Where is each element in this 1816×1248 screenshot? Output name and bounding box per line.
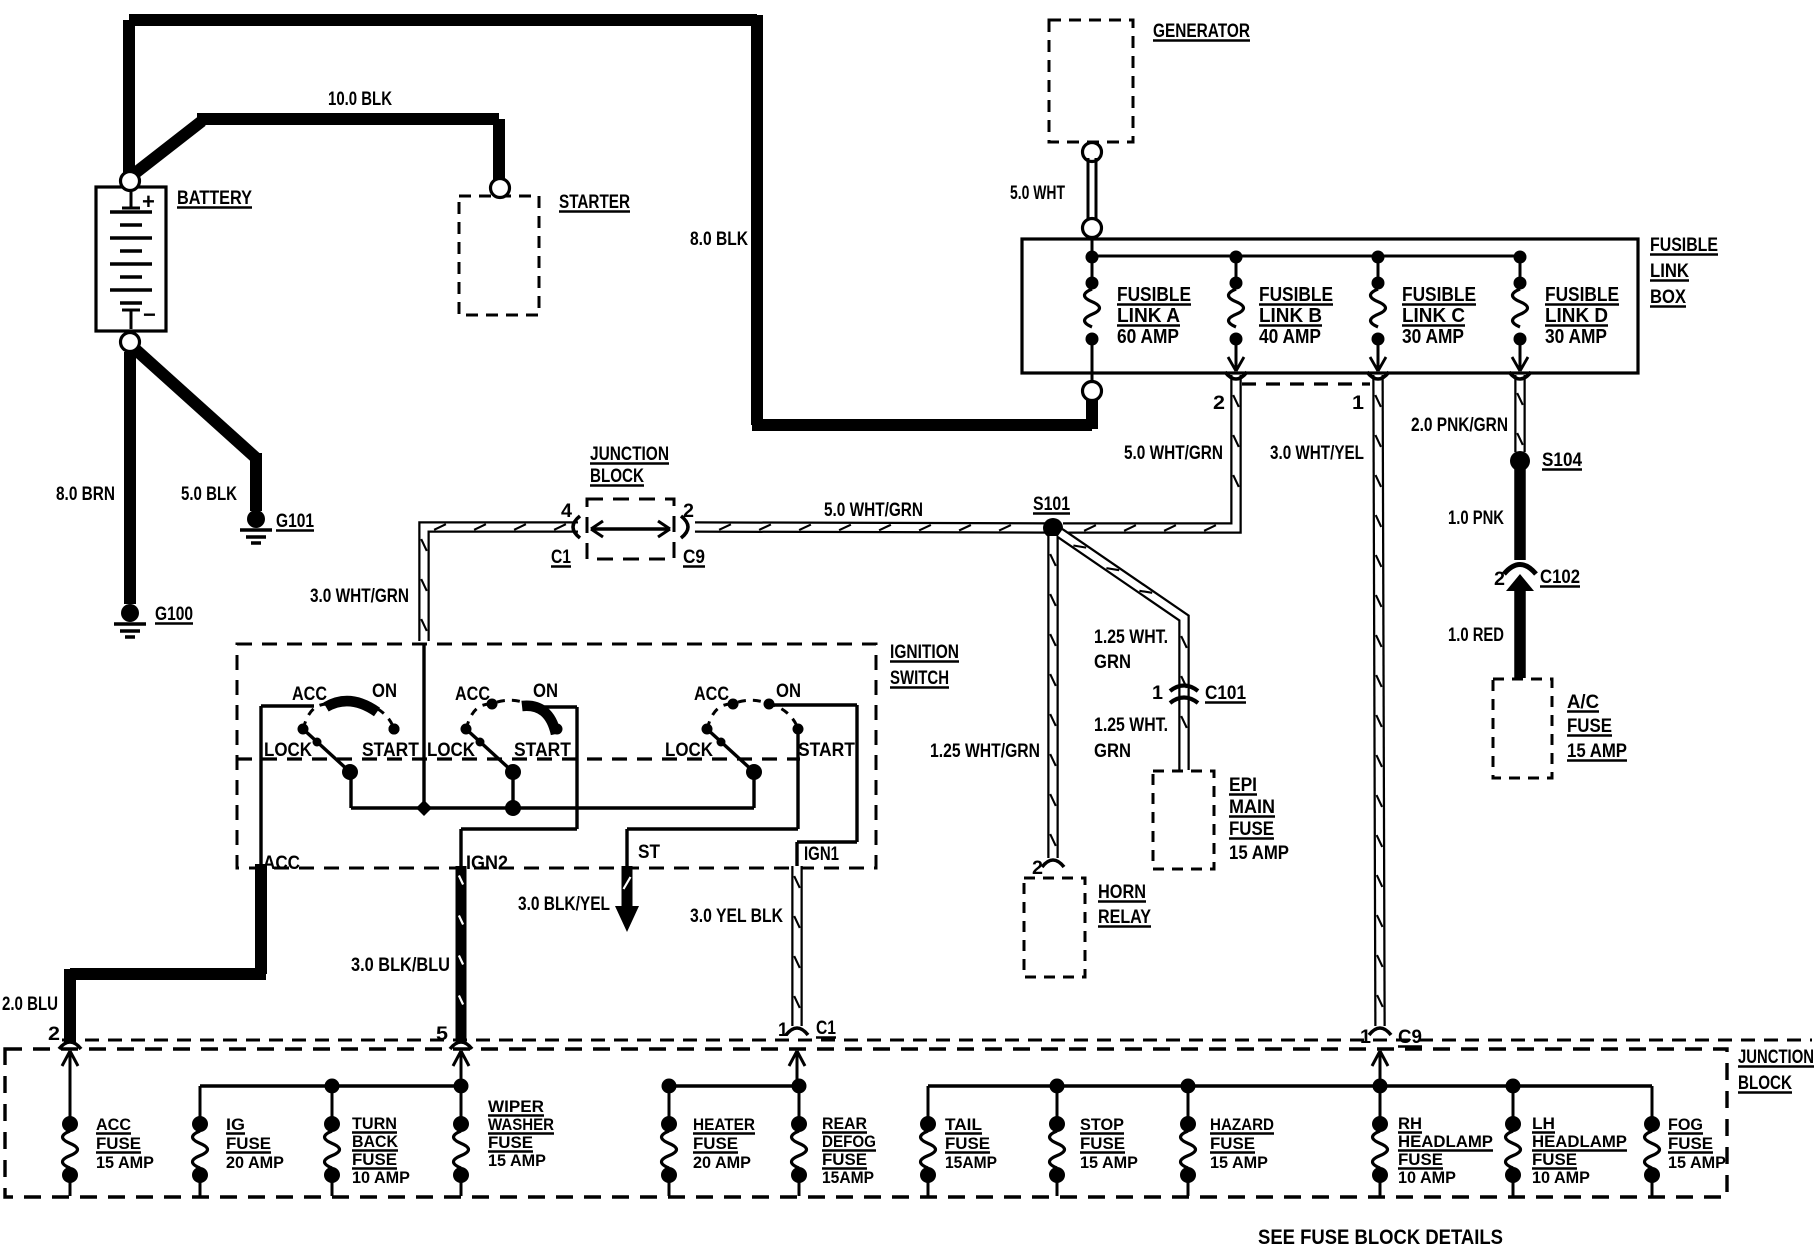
svg-text:HEADLAMP: HEADLAMP — [1398, 1132, 1493, 1151]
svg-text:RH: RH — [1398, 1114, 1422, 1133]
wafer2 position labels — [427, 681, 571, 761]
label 3.0 WHT/GRN — [310, 586, 409, 607]
wire ACC feed bus — [351, 772, 754, 808]
svg-text:GENERATOR: GENERATOR — [1153, 21, 1250, 42]
svg-text:2: 2 — [48, 1024, 60, 1045]
svg-text:2.0 PNK/GRN: 2.0 PNK/GRN — [1411, 415, 1508, 436]
fusible link bus wire — [1092, 237, 1520, 256]
label IGN1 output — [804, 844, 839, 865]
label 1 C9 — [1360, 1027, 1422, 1048]
fusible link B 40A element — [1228, 257, 1244, 371]
label BATTERY — [177, 188, 252, 209]
connector C101 — [1152, 683, 1246, 704]
wire 5.0 WHT generator to fusible link box — [1088, 158, 1096, 222]
label 5.0 WHT/GRN (run) — [824, 500, 923, 521]
wire 8.0 BRN battery to G100 — [124, 352, 136, 604]
svg-text:G101: G101 — [276, 511, 314, 532]
svg-text:FUSE: FUSE — [1080, 1134, 1125, 1153]
label 3.0 WHT/YEL — [1270, 443, 1364, 464]
svg-text:GRN: GRN — [1094, 741, 1131, 762]
svg-text:1.0 RED: 1.0 RED — [1448, 625, 1504, 646]
generator G box — [1049, 20, 1133, 142]
svg-text:3.0 WHT/GRN: 3.0 WHT/GRN — [310, 586, 409, 607]
battery positive cable 10.0 BLK to top bus — [129, 20, 757, 174]
svg-text:FUSE: FUSE — [352, 1150, 397, 1169]
svg-text:LINK B: LINK B — [1259, 305, 1322, 327]
wire wafer1 ACC contact to ACC output — [261, 706, 314, 866]
label 5.0 WHT — [1010, 183, 1065, 204]
wire 5.0 BLK battery to G101 — [135, 349, 256, 511]
label 5.0 WHT/GRN — [1124, 443, 1223, 464]
svg-text:BLOCK: BLOCK — [590, 466, 644, 487]
pin 4 label — [561, 501, 572, 522]
svg-text:IGN1: IGN1 — [804, 844, 839, 865]
label 5.0 BLK — [181, 484, 237, 505]
svg-text:A/C: A/C — [1567, 692, 1599, 713]
svg-text:START: START — [514, 740, 571, 761]
svg-text:LOCK: LOCK — [665, 740, 713, 761]
svg-text:3.0 BLK/BLU: 3.0 BLK/BLU — [351, 955, 450, 976]
svg-text:FUSIBLE: FUSIBLE — [1259, 284, 1333, 306]
wire wafer2 ON contact to IGN2 output — [461, 707, 577, 866]
svg-text:WASHER: WASHER — [488, 1115, 554, 1134]
svg-text:10 AMP: 10 AMP — [1398, 1168, 1456, 1187]
svg-text:FUSE: FUSE — [1532, 1150, 1577, 1169]
label HORN RELAY — [1098, 882, 1151, 928]
label 8.0 BRN — [56, 484, 115, 505]
mechanical link dashed line — [237, 757, 800, 760]
svg-text:DEFOG: DEFOG — [822, 1132, 876, 1151]
ignition switch wafer 2 (IGN2) — [461, 699, 563, 781]
connector face dashed line above junction block — [62, 1039, 1812, 1042]
svg-text:BOX: BOX — [1650, 287, 1686, 308]
svg-text:FUSE: FUSE — [1398, 1150, 1443, 1169]
svg-text:1: 1 — [1352, 393, 1364, 414]
svg-text:10 AMP: 10 AMP — [352, 1168, 410, 1187]
ignition switch box — [237, 644, 876, 868]
pin 5 label — [436, 1024, 448, 1045]
junction block IGN1 entry arrow — [789, 1051, 805, 1086]
svg-text:JUNCTION: JUNCTION — [590, 444, 669, 465]
ignition switch wafer 1 (ACC) — [298, 700, 400, 780]
svg-text:JUNCTION: JUNCTION — [1738, 1047, 1814, 1068]
svg-text:5: 5 — [436, 1024, 448, 1045]
svg-text:FUSE: FUSE — [1229, 819, 1274, 840]
junction block (bottom) box — [5, 1049, 1727, 1197]
junction block (middle) box — [587, 499, 674, 559]
svg-text:ON: ON — [776, 681, 801, 702]
svg-text:STARTER: STARTER — [559, 192, 630, 213]
label 3.0 YEL/BLK — [690, 906, 783, 927]
bus wire HEATER-DEFOG — [662, 1079, 807, 1094]
svg-text:1: 1 — [1152, 683, 1163, 704]
WIPER WASHER fuse 15A — [453, 1086, 469, 1196]
svg-text:1.25 WHT.: 1.25 WHT. — [1094, 627, 1168, 648]
svg-text:15 AMP: 15 AMP — [1210, 1153, 1268, 1172]
svg-text:ST: ST — [638, 842, 660, 863]
label 1.25 WHT/GRN — [930, 741, 1040, 762]
wire 2.0 PNK/GRN link D to S104 — [1509, 372, 1531, 452]
svg-text:5.0 BLK: 5.0 BLK — [181, 484, 237, 505]
horn relay box — [1024, 878, 1085, 977]
svg-text:FUSE: FUSE — [96, 1134, 141, 1153]
svg-text:GRN: GRN — [1094, 652, 1131, 673]
svg-text:MAIN: MAIN — [1229, 797, 1275, 818]
svg-text:TURN: TURN — [352, 1114, 397, 1133]
wire 10.0 BLK battery to starter — [134, 119, 499, 180]
starter terminal — [491, 179, 510, 198]
svg-text:ACC: ACC — [455, 684, 490, 705]
label RH HEADLAMP FUSE 10 AMP — [1398, 1114, 1493, 1187]
svg-text:10 AMP: 10 AMP — [1532, 1168, 1590, 1187]
label JUNCTION BLOCK (middle) — [590, 444, 669, 487]
label 10.0 BLK — [328, 89, 392, 110]
bus junction dot wafer2 — [505, 800, 521, 816]
svg-text:ON: ON — [533, 681, 558, 702]
label IG FUSE 20 AMP — [226, 1115, 284, 1172]
battery negative terminal — [121, 333, 140, 352]
svg-text:10.0 BLK: 10.0 BLK — [328, 89, 392, 110]
svg-text:S104: S104 — [1542, 450, 1582, 471]
svg-text:FUSE: FUSE — [1668, 1134, 1713, 1153]
HEATER fuse 20A — [661, 1086, 677, 1196]
svg-text:LOCK: LOCK — [427, 740, 475, 761]
svg-text:FUSE: FUSE — [1567, 716, 1612, 737]
svg-text:60 AMP: 60 AMP — [1117, 326, 1179, 348]
A/C fuse box — [1493, 679, 1552, 778]
svg-text:IG: IG — [226, 1115, 245, 1134]
svg-text:ON: ON — [372, 681, 397, 702]
REAR DEFOG fuse 15A — [791, 1086, 807, 1196]
svg-text:1: 1 — [778, 1020, 788, 1041]
wire wafer3 START contact to ST output — [627, 729, 798, 866]
connector C9 flare (middle) — [681, 516, 688, 538]
fusible link box input terminal — [1083, 219, 1102, 238]
pin 1 of link C wire — [1352, 393, 1364, 414]
label 2.0 BLU — [2, 994, 58, 1015]
svg-text:IGN2: IGN2 — [466, 853, 508, 874]
connector C1 flare — [573, 516, 580, 538]
svg-text:ACC: ACC — [263, 853, 300, 874]
label LH HEADLAMP FUSE 10 AMP — [1532, 1114, 1627, 1187]
junction block IGN2 entry arrow — [453, 1051, 469, 1086]
bus junction dots — [1086, 251, 1527, 264]
IG fuse 20A — [192, 1086, 208, 1196]
wire wafer3 ON contact to IGN1 output — [769, 705, 857, 866]
junction block C9 entry arrow — [1372, 1051, 1388, 1086]
wafer3 position labels — [665, 681, 855, 761]
label 3.0 BLK/YEL — [518, 894, 610, 915]
svg-text:ACC: ACC — [96, 1115, 131, 1134]
svg-text:8.0 BRN: 8.0 BRN — [56, 484, 115, 505]
splice S101 — [1033, 494, 1070, 538]
wire 3.0 WHT/YEL link C to junction block C9 — [1367, 372, 1389, 1026]
connector C9 flare at junction block — [1369, 1028, 1391, 1035]
FOG fuse 15A — [1644, 1086, 1660, 1196]
svg-text:2.0 BLU: 2.0 BLU — [2, 994, 58, 1015]
label C9 (middle) — [683, 547, 705, 568]
svg-text:IGNITION: IGNITION — [890, 642, 959, 663]
wafer1 position labels — [264, 681, 419, 761]
label 1.25 WHT GRN (below C101) — [1094, 715, 1168, 762]
svg-text:40 AMP: 40 AMP — [1259, 326, 1321, 348]
wire 1.0 RED C102 to AC fuse — [1514, 586, 1526, 678]
label ACC FUSE 15 AMP — [96, 1115, 154, 1172]
svg-text:3.0 YEL BLK: 3.0 YEL BLK — [690, 906, 783, 927]
svg-text:BLOCK: BLOCK — [1738, 1073, 1792, 1094]
label STARTER — [559, 192, 630, 213]
label FOG FUSE 15 AMP — [1668, 1115, 1726, 1172]
label FUSIBLE LINK D 30 AMP — [1545, 284, 1619, 348]
svg-text:START: START — [798, 740, 855, 761]
wire 1.0 PNK S104 to C102 — [1514, 468, 1526, 560]
svg-text:2: 2 — [1213, 393, 1225, 414]
svg-text:C9: C9 — [683, 547, 705, 568]
svg-text:HAZARD: HAZARD — [1210, 1115, 1274, 1134]
svg-text:RELAY: RELAY — [1098, 907, 1151, 928]
splice S104 — [1510, 450, 1582, 471]
svg-text:WIPER: WIPER — [488, 1097, 544, 1116]
label TURN BACK FUSE 10 AMP — [352, 1114, 410, 1187]
svg-text:20 AMP: 20 AMP — [226, 1153, 284, 1172]
label 1.0 RED — [1448, 625, 1504, 646]
svg-text:15 AMP: 15 AMP — [1567, 741, 1627, 762]
wire 3.0 WHT/GRN junction C1 to ignition switch — [421, 524, 578, 641]
svg-text:2: 2 — [1032, 858, 1043, 879]
ground G100 — [114, 604, 193, 637]
svg-text:C101: C101 — [1205, 683, 1246, 704]
label FUSIBLE LINK BOX — [1650, 235, 1718, 308]
svg-text:BACK: BACK — [352, 1132, 399, 1151]
label 1.25 WHT GRN (above C101) — [1094, 627, 1168, 673]
wire 3.0 YEL/BLK IGN1 to junction block — [794, 866, 800, 1026]
svg-text:1: 1 — [1360, 1027, 1371, 1048]
svg-text:C9: C9 — [1398, 1027, 1422, 1048]
svg-text:FOG: FOG — [1668, 1115, 1703, 1134]
svg-text:5.0 WHT: 5.0 WHT — [1010, 183, 1065, 204]
svg-text:15AMP: 15AMP — [822, 1168, 874, 1187]
bus wire IG-TURN-WIPER — [200, 1079, 469, 1094]
ignition switch wafer 3 (IGN1/ST) — [702, 699, 804, 781]
svg-text:1.25 WHT.: 1.25 WHT. — [1094, 715, 1168, 736]
junction block ACC entry arrow — [62, 1051, 78, 1066]
label FUSIBLE LINK A 60 AMP — [1117, 284, 1191, 348]
wire 8.0 BLK top bus to fusible link box — [752, 15, 1092, 429]
svg-text:15 AMP: 15 AMP — [1668, 1153, 1726, 1172]
ACC fuse 15A — [62, 1054, 78, 1196]
battery positive terminal — [121, 172, 140, 191]
IGN1 wire C1 flare — [786, 1028, 808, 1035]
fusible link C 30A element — [1370, 257, 1386, 371]
svg-text:5.0 WHT/GRN: 5.0 WHT/GRN — [824, 500, 923, 521]
ACC wire end flare — [59, 1042, 81, 1049]
svg-text:REAR: REAR — [822, 1114, 867, 1133]
svg-text:LINK A: LINK A — [1117, 305, 1180, 327]
svg-text:FUSIBLE: FUSIBLE — [1117, 284, 1191, 306]
wire 5.0 WHT/GRN C9 to S101 — [695, 524, 1053, 530]
STOP fuse 15A — [1049, 1086, 1065, 1196]
label 3.0 BLK/BLU — [351, 955, 450, 976]
svg-text:LOCK: LOCK — [264, 740, 312, 761]
label 8.0 BLK — [690, 229, 748, 250]
svg-text:FUSE: FUSE — [1210, 1134, 1255, 1153]
svg-text:FUSIBLE: FUSIBLE — [1650, 235, 1718, 256]
svg-text:15 AMP: 15 AMP — [488, 1151, 546, 1170]
svg-text:2: 2 — [683, 501, 694, 522]
label JUNCTION BLOCK (bottom) — [1738, 1047, 1814, 1094]
label ST output — [638, 842, 660, 863]
label IGNITION SWITCH — [890, 642, 959, 689]
label 1.0 PNK — [1448, 508, 1504, 529]
svg-text:START: START — [362, 740, 419, 761]
junction diamond C1 feed — [416, 644, 432, 816]
svg-text:SEE FUSE BLOCK DETAILS: SEE FUSE BLOCK DETAILS — [1258, 1226, 1503, 1248]
wire 2.0 BLU ACC to junction block — [70, 864, 266, 1042]
svg-text:−: − — [143, 302, 156, 327]
label FUSIBLE LINK C 30 AMP — [1402, 284, 1476, 348]
caption SEE FUSE BLOCK DETAILS — [1258, 1226, 1503, 1248]
RH HEADLAMP fuse 10A — [1372, 1086, 1388, 1196]
junction block internal arrow — [591, 521, 670, 537]
svg-text:FUSE: FUSE — [945, 1134, 990, 1153]
fusible link A 60A element — [1085, 257, 1100, 384]
svg-text:S101: S101 — [1033, 494, 1070, 515]
svg-text:FUSIBLE: FUSIBLE — [1402, 284, 1476, 306]
svg-text:C1: C1 — [816, 1018, 836, 1039]
label GENERATOR — [1153, 21, 1250, 42]
svg-text:15 AMP: 15 AMP — [96, 1153, 154, 1172]
starter M1 box — [459, 196, 539, 315]
svg-text:20 AMP: 20 AMP — [693, 1153, 751, 1172]
svg-text:2: 2 — [1494, 569, 1505, 590]
svg-text:ACC: ACC — [694, 684, 729, 705]
horn relay connector flare — [1032, 858, 1064, 879]
TURN BACK fuse 10A — [324, 1086, 340, 1196]
wire 1.25 WHT/GRN S101 to horn relay — [1050, 536, 1056, 858]
TAIL fuse 15A — [920, 1086, 936, 1196]
battery B1 — [96, 187, 166, 331]
LH HEADLAMP fuse 10A — [1505, 1086, 1521, 1196]
svg-text:ACC: ACC — [292, 684, 327, 705]
svg-text:C1: C1 — [551, 547, 571, 568]
pin 2 label (middle) — [683, 501, 694, 522]
pin 2 of link B wire — [1213, 393, 1225, 414]
svg-text:3.0 WHT/YEL: 3.0 WHT/YEL — [1270, 443, 1364, 464]
label HEATER FUSE 20 AMP — [693, 1115, 755, 1172]
pin 2 label (ACC) — [48, 1024, 60, 1045]
label C1 — [551, 547, 571, 568]
wire 3.0 BLK/BLU IGN2 to junction block — [459, 866, 463, 1040]
svg-text:15 AMP: 15 AMP — [1080, 1153, 1138, 1172]
svg-text:FUSE: FUSE — [226, 1134, 271, 1153]
svg-text:FUSE: FUSE — [488, 1133, 533, 1152]
svg-text:FUSE: FUSE — [693, 1134, 738, 1153]
ground G101 — [240, 510, 314, 543]
svg-text:1.0 PNK: 1.0 PNK — [1448, 508, 1504, 529]
bus wire TAIL to FOG — [928, 1079, 1652, 1094]
wire 5.0 WHT/GRN link B to S101 — [1063, 372, 1247, 531]
wire 3.0 BLK/YEL ST arrow — [615, 866, 639, 932]
svg-text:HEATER: HEATER — [693, 1115, 755, 1134]
label 2.0 PNK/GRN — [1411, 415, 1508, 436]
label WIPER WASHER FUSE 15 AMP — [488, 1097, 554, 1170]
generator terminal — [1083, 143, 1102, 162]
svg-text:LH: LH — [1532, 1114, 1555, 1133]
svg-text:1.25 WHT/GRN: 1.25 WHT/GRN — [930, 741, 1040, 762]
svg-text:LINK: LINK — [1650, 261, 1689, 282]
fusible link A output terminal — [1083, 382, 1102, 401]
connector C102 — [1494, 565, 1580, 592]
label ACC output — [263, 853, 300, 874]
svg-text:15 AMP: 15 AMP — [1229, 843, 1289, 864]
svg-text:30 AMP: 30 AMP — [1402, 326, 1464, 348]
svg-text:FUSIBLE: FUSIBLE — [1545, 284, 1619, 306]
label FUSIBLE LINK B 40 AMP — [1259, 284, 1333, 348]
svg-text:LINK C: LINK C — [1402, 305, 1465, 327]
svg-text:STOP: STOP — [1080, 1115, 1124, 1134]
label EPI MAIN FUSE 15 AMP — [1229, 775, 1289, 864]
label TAIL FUSE 15AMP — [945, 1115, 997, 1172]
dashed connector line below fusible links — [1242, 382, 1370, 385]
IGN2 wire end flare — [450, 1042, 472, 1049]
label REAR DEFOG FUSE 15AMP — [822, 1114, 876, 1187]
svg-text:4: 4 — [561, 501, 572, 522]
svg-text:3.0 BLK/YEL: 3.0 BLK/YEL — [518, 894, 610, 915]
svg-text:15AMP: 15AMP — [945, 1153, 997, 1172]
svg-text:EPI: EPI — [1229, 775, 1257, 796]
fusible link D 30A element — [1512, 257, 1528, 371]
svg-text:BATTERY: BATTERY — [177, 188, 252, 209]
svg-text:C102: C102 — [1540, 567, 1580, 588]
svg-text:FUSE: FUSE — [822, 1150, 867, 1169]
svg-text:SWITCH: SWITCH — [890, 668, 949, 689]
svg-text:HORN: HORN — [1098, 882, 1146, 903]
label IGN2 output — [466, 853, 508, 874]
svg-text:TAIL: TAIL — [945, 1115, 982, 1134]
label A/C FUSE 15 AMP — [1567, 692, 1627, 762]
svg-text:G100: G100 — [155, 604, 193, 625]
label HAZARD FUSE 15 AMP — [1210, 1115, 1274, 1172]
fusible link box outline — [1022, 239, 1638, 373]
wire 1.25 WHT/GRN S101 to C101 — [1060, 533, 1187, 770]
svg-text:+: + — [142, 189, 155, 214]
svg-text:30 AMP: 30 AMP — [1545, 326, 1607, 348]
svg-text:HEADLAMP: HEADLAMP — [1532, 1132, 1627, 1151]
svg-text:5.0 WHT/GRN: 5.0 WHT/GRN — [1124, 443, 1223, 464]
HAZARD fuse 15A — [1180, 1086, 1196, 1196]
label STOP FUSE 15 AMP — [1080, 1115, 1138, 1172]
label 1 C1 — [778, 1018, 836, 1041]
EPI main fuse box — [1153, 771, 1214, 869]
svg-text:LINK D: LINK D — [1545, 305, 1608, 327]
svg-text:8.0 BLK: 8.0 BLK — [690, 229, 748, 250]
